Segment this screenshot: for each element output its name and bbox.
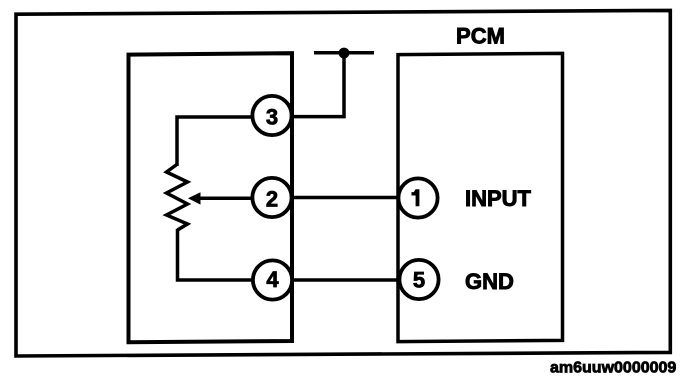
svg-text:am6uuw0000009: am6uuw0000009 (550, 359, 676, 376)
wire: junction down to pin 3 level (292, 53, 344, 117)
label PCM (456, 24, 505, 49)
PCM pin 5 (399, 260, 438, 299)
svg-text:PCM: PCM (456, 24, 505, 49)
junction dot (339, 48, 350, 59)
svg-text:5: 5 (413, 268, 425, 293)
svg-text:3: 3 (266, 105, 278, 130)
label INPUT (465, 186, 532, 211)
PCM module box (398, 53, 563, 341)
PCM pin 1 (398, 178, 437, 217)
svg-text:2: 2 (266, 186, 278, 211)
terminal 2 (252, 178, 291, 217)
wiper arrowhead (188, 192, 201, 204)
wire: bottom of potentiometer to pin 4 (178, 229, 254, 280)
terminal 4 (253, 260, 292, 299)
power rail (314, 51, 374, 55)
figure code am6uuw0000009 (550, 359, 676, 376)
sensor box (potentiometer enclosure) (129, 53, 293, 342)
terminal 3 (252, 96, 291, 135)
potentiometer R (zigzag) (167, 164, 188, 230)
wire: pin 3 to top of potentiometer (177, 117, 253, 166)
svg-text:INPUT: INPUT (465, 186, 532, 211)
wire: pin 2 to PCM pin 1 (292, 196, 400, 200)
wiper wire from pin 2 (199, 197, 253, 201)
label GND (465, 269, 514, 294)
wire: pin 4 to PCM pin 5 (293, 278, 401, 282)
svg-text:4: 4 (266, 267, 279, 292)
svg-text:GND: GND (465, 269, 514, 294)
